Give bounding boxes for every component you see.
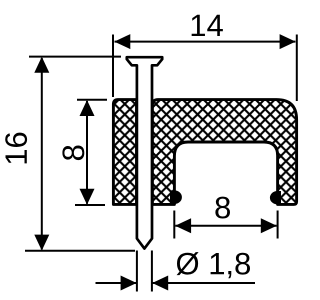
dim 8 left: top arrow xyxy=(80,100,95,116)
dim 14: right arrow xyxy=(280,34,296,49)
dim diameter 1,8: left arrow xyxy=(121,276,137,291)
nail (head, shank, point) xyxy=(127,57,162,248)
dim 8 left: dimension line xyxy=(86,101,88,204)
dim 8 bottom: left arrow xyxy=(175,218,191,233)
dim 14: right extension line xyxy=(296,35,298,102)
dim 8 left: bottom extension line xyxy=(75,204,105,206)
dim 8 left: top extension line xyxy=(77,99,107,101)
foot lip, right (filled) xyxy=(270,191,281,204)
dim 8 left: bottom arrow xyxy=(80,189,95,205)
dim 8 bottom: right arrow xyxy=(261,218,277,233)
dim 16: top arrow xyxy=(34,57,49,73)
dim diameter 1,8: right leader line xyxy=(152,282,255,284)
dim 8 bottom: label xyxy=(215,197,230,219)
dim 8 left: label xyxy=(62,146,84,161)
dim diameter 1,8: left extension line xyxy=(136,251,138,292)
dim diameter 1,8: label xyxy=(177,252,250,278)
dim 14: label xyxy=(192,15,223,36)
dim diameter 1,8: left leader line xyxy=(96,282,137,284)
dim 8 bottom: right extension line xyxy=(277,211,279,239)
dim 14: left extension line xyxy=(112,35,114,98)
dim 8 bottom: left extension line xyxy=(173,211,175,239)
dim 16: dimension line xyxy=(41,58,43,249)
clip body: left bar (hatched) xyxy=(113,100,136,205)
dim diameter 1,8: right extension line xyxy=(151,251,153,292)
dim 16: bottom arrow xyxy=(34,235,49,251)
dim 16: bottom extension line xyxy=(25,250,135,252)
clip body: main piece right of nail (hatched) xyxy=(152,100,296,205)
dim 14: left arrow xyxy=(114,34,130,49)
dim 16: top extension line xyxy=(29,56,121,58)
dim diameter 1,8: right arrow xyxy=(152,276,168,291)
foot lip, left (filled) xyxy=(170,190,182,204)
dim 14: dimension line xyxy=(115,41,296,43)
dim 16: label xyxy=(5,133,27,164)
dim 8 bottom: dimension line xyxy=(175,225,276,227)
